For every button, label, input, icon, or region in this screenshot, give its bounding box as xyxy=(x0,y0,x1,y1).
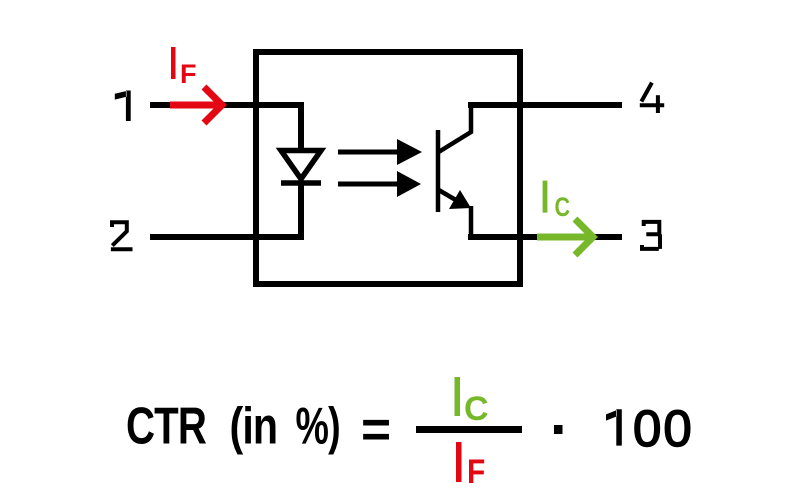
LED D1 cathode bar xyxy=(281,180,321,186)
pin 2 wire xyxy=(150,234,304,240)
svg-text:00: 00 xyxy=(633,400,694,457)
svg-text:F: F xyxy=(180,59,197,89)
light arrow 1 xyxy=(338,139,422,165)
pin 1 wire xyxy=(150,102,304,108)
pin 3 label xyxy=(642,222,660,249)
formula denominator IF xyxy=(456,442,485,490)
formula numerator IC xyxy=(455,377,489,428)
svg-text:(in: (in xyxy=(230,397,278,454)
svg-text:CTR: CTR xyxy=(126,397,207,455)
formula factor 100 xyxy=(606,409,622,445)
transistor Q1 emitter arrowhead xyxy=(449,190,471,209)
pin 3 wire xyxy=(468,234,622,240)
svg-text:F: F xyxy=(467,452,485,490)
pin 4 label xyxy=(640,83,664,113)
light arrow 2 xyxy=(338,171,421,197)
current arrow IC xyxy=(537,219,593,255)
pin 2 label xyxy=(111,222,133,249)
transistor Q1 emitter xyxy=(437,189,466,206)
LED D1 triangle xyxy=(281,151,321,180)
label IC xyxy=(543,181,570,223)
svg-text:=: = xyxy=(361,400,391,458)
pin 4 wire xyxy=(468,102,622,108)
transistor Q1 collector xyxy=(437,105,471,153)
LED D1 anode wire xyxy=(298,102,304,150)
svg-text:%): %) xyxy=(296,397,340,455)
formula text CTR (in %) xyxy=(126,397,207,455)
formula fraction bar xyxy=(416,426,522,433)
transistor Q1 emitter wire xyxy=(469,206,474,237)
optocoupler package outline U1 xyxy=(256,52,520,284)
svg-text:C: C xyxy=(555,193,571,223)
pin 1 label xyxy=(115,91,131,122)
formula multiplication dot xyxy=(554,425,563,434)
LED D1 cathode wire xyxy=(298,183,304,240)
label IF xyxy=(171,47,197,89)
current arrow IF xyxy=(170,87,222,123)
transistor Q1 base bar xyxy=(436,130,441,212)
svg-text:C: C xyxy=(464,390,489,428)
